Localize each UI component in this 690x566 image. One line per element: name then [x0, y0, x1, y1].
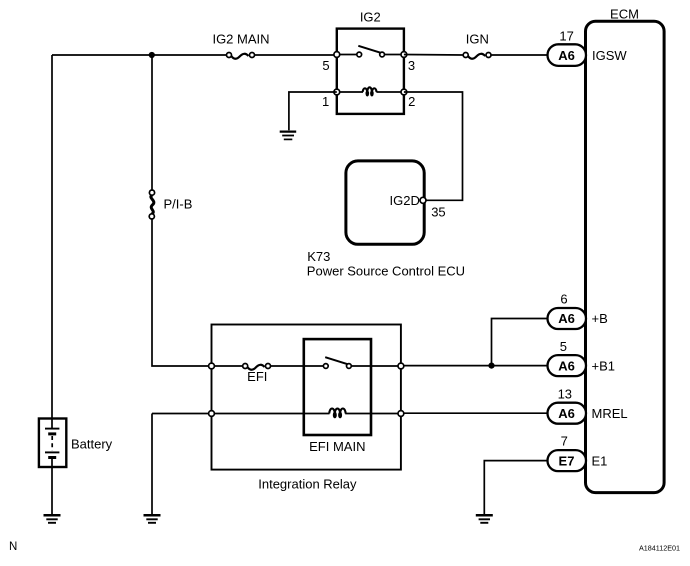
pin 1 label — [322, 94, 329, 109]
fuse EFI — [243, 364, 271, 385]
svg-text:Integration Relay: Integration Relay — [258, 477, 357, 492]
svg-text:Power Source Control ECU: Power Source Control ECU — [307, 263, 465, 278]
wire: IG2 pin3 to IGN fuse — [404, 54, 463, 57]
node: relay right edge EFI line — [398, 363, 404, 369]
svg-text:5: 5 — [322, 58, 329, 73]
wire: switch to relay right edge — [351, 365, 399, 367]
junction: +B branch — [488, 363, 494, 369]
switch IG2 (contacts and blade) — [357, 46, 385, 57]
wire: IG2 pin1 to ground — [289, 92, 337, 130]
wire: IG2 MAIN fuse to relay pin 5 — [255, 54, 337, 56]
ground (battery) — [44, 515, 61, 523]
junction: battery feed / PI-B branch — [149, 52, 155, 58]
svg-text:2: 2 — [408, 94, 415, 109]
note N — [9, 541, 17, 553]
connector pin MREL (A6-13) — [548, 386, 587, 423]
pin 3 label — [408, 58, 415, 73]
relay IG2 box — [337, 9, 404, 114]
svg-text:EFI MAIN: EFI MAIN — [309, 439, 365, 454]
svg-text:A6: A6 — [558, 406, 575, 421]
ground (IG2 relay pin 1) — [280, 132, 297, 140]
connector pin IGSW (A6-17) — [548, 28, 587, 66]
connector pin E1 (E7-7) — [548, 434, 587, 471]
svg-text:3: 3 — [408, 58, 415, 73]
net label +B — [592, 311, 608, 326]
wire: MREL/ground vertical at left of integration relay — [151, 414, 153, 515]
integration relay outer box — [212, 325, 401, 492]
wire: EFI fuse to switch — [270, 365, 323, 367]
svg-text:IG2: IG2 — [360, 9, 381, 24]
svg-text:1: 1 — [322, 94, 329, 109]
wire: MREL line left stub — [152, 413, 210, 415]
switch EFI MAIN (contacts and blade) — [323, 357, 351, 368]
svg-text:IG2D: IG2D — [390, 193, 420, 208]
wire: IG2 switch line pin5 to left contact — [337, 54, 357, 56]
svg-text:5: 5 — [560, 339, 567, 354]
coil: IG2 relay coil — [363, 87, 377, 96]
wire: E1 to ground — [484, 461, 548, 515]
wire: battery feed vertical (left column) — [51, 55, 53, 419]
wire: relay to MREL pin — [404, 412, 549, 414]
svg-text:K73: K73 — [307, 249, 330, 264]
svg-text:A6: A6 — [558, 358, 575, 373]
pin 2 label — [408, 94, 415, 109]
pin IG2D node — [420, 197, 426, 203]
pin 35 label — [431, 205, 445, 220]
svg-text:7: 7 — [561, 434, 568, 449]
IG2 relay pin nodes — [334, 52, 407, 95]
ECM box — [586, 6, 665, 492]
svg-text:P/I-B: P/I-B — [164, 197, 193, 212]
pin 5 label — [322, 58, 329, 73]
svg-text:MREL: MREL — [592, 406, 628, 421]
wire: battery negative to ground — [51, 467, 53, 514]
relay EFI MAIN inner box — [304, 339, 371, 454]
svg-text:A6: A6 — [558, 311, 575, 326]
fuse IG2 MAIN — [212, 32, 269, 59]
net label MREL — [592, 406, 628, 421]
figure id A184112E01 — [639, 543, 680, 552]
wire: IG2 switch right contact to pin3 — [385, 54, 404, 56]
coil: EFI MAIN relay coil — [329, 409, 345, 419]
fuse IGN — [463, 32, 491, 59]
wire: relay to +B1 pin — [404, 365, 549, 367]
battery B1 — [39, 419, 113, 468]
svg-text:Battery: Battery — [71, 436, 113, 451]
fusible link P/I-B — [149, 190, 192, 219]
svg-text:A6: A6 — [558, 48, 575, 63]
node: relay left edge coil line — [209, 411, 215, 417]
svg-text:N: N — [9, 541, 17, 553]
svg-text:EFI: EFI — [247, 369, 267, 384]
ground (P/I-B column) — [144, 515, 161, 523]
net label IGSW — [592, 48, 627, 63]
wire: IG2 coil line pin1 to pin2 — [337, 91, 404, 93]
svg-text:E7: E7 — [559, 453, 575, 468]
net label E1 — [592, 453, 608, 468]
net label +B1 — [592, 358, 616, 373]
svg-text:13: 13 — [558, 386, 572, 401]
svg-text:IG2 MAIN: IG2 MAIN — [212, 32, 269, 47]
svg-text:IGSW: IGSW — [592, 48, 627, 63]
wire: +B branch up to +B pin — [492, 319, 549, 366]
svg-text:35: 35 — [431, 205, 445, 220]
wire: P/I-B branch down — [151, 55, 153, 190]
svg-text:+B1: +B1 — [592, 358, 616, 373]
wire: IG2 pin2 to IG2D (right then down then left) — [404, 92, 463, 200]
svg-text:6: 6 — [560, 292, 567, 307]
ECU K73 box — [346, 161, 424, 244]
svg-text:IGN: IGN — [466, 32, 489, 47]
svg-text:E1: E1 — [592, 453, 608, 468]
connector pin +B (A6-6) — [548, 292, 587, 329]
wire: EFI line from relay left edge to fuse — [214, 365, 243, 367]
wire: top horizontal from battery column to IG2 MAIN fuse — [52, 54, 227, 56]
connector pin +B1 (A6-5) — [548, 339, 587, 376]
K73 caption — [307, 249, 465, 279]
svg-text:+B: +B — [592, 311, 608, 326]
svg-text:A184112E01: A184112E01 — [639, 543, 680, 552]
node: relay left edge EFI line — [209, 363, 215, 369]
svg-text:17: 17 — [559, 28, 573, 43]
wire: P/I-B to integration relay (down then right) — [152, 219, 210, 366]
node: relay right edge coil line — [398, 411, 404, 417]
ground (E1) — [476, 515, 493, 523]
svg-text:ECM: ECM — [610, 6, 639, 21]
wire: coil line inside relay — [214, 413, 399, 415]
wire: IGN fuse to IGSW pin — [491, 54, 548, 56]
